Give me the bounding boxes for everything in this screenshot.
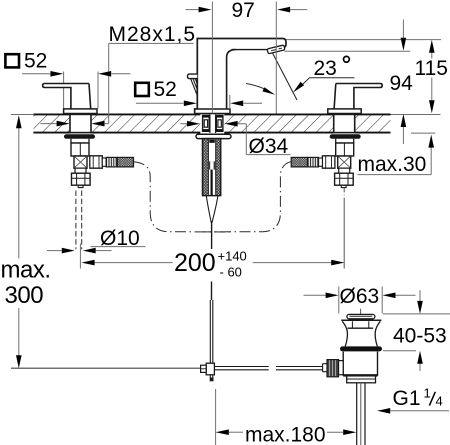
drain centreline tick (360, 309, 362, 314)
svg-text:23: 23 (314, 57, 337, 80)
right valve under-deck flange nut (330, 134, 361, 139)
right supply hose: hex nut (291, 156, 335, 168)
23-degree stream line (272, 53, 297, 100)
left handle base plinth (64, 109, 97, 114)
phantom hose curve from left valve (134, 162, 230, 232)
label square-52 top left (5, 54, 19, 67)
svg-text:52: 52 (24, 49, 47, 72)
dim 115 (inside arrows) (431, 52, 433, 101)
svg-text:max.30: max.30 (358, 153, 427, 176)
svg-text:97: 97 (232, 0, 255, 22)
svg-text:300: 300 (5, 282, 44, 309)
dim 40-53 (383, 314, 450, 351)
dim max.180 (215, 389, 217, 445)
center threaded shank below spout (196, 134, 231, 222)
svg-text:200: 200 (174, 249, 216, 277)
svg-text:M28x1,5: M28x1,5 (109, 23, 197, 46)
svg-text:max.: max. (1, 257, 51, 284)
drain rod shaft stub (323, 364, 327, 372)
drain threaded collar G1 1/4 (347, 376, 376, 383)
svg-text:Ø63: Ø63 (340, 285, 380, 308)
right hose connector (319, 158, 323, 166)
pull rod of pop-up waste (211, 221, 213, 300)
left valve supply tails (dashed, Ø10) (76, 191, 82, 250)
dim diameter 63 (339, 287, 382, 314)
deck reference extension lines (11, 115, 441, 134)
left valve body (71, 143, 89, 156)
pipes exiting shank bottom (converging) (206, 196, 218, 223)
phantom hose curve from right valve (203, 162, 291, 232)
right handle T2 (mirror) (328, 84, 382, 114)
pop-up waste knob on spout (188, 74, 198, 95)
sq52 extension lines (under handle) (64, 72, 98, 109)
drain side port white block (339, 361, 344, 375)
dim 97: arrows (186, 9, 200, 11)
spout base plinth (195, 109, 230, 114)
dim 94 (outside arrows) (402, 20, 404, 39)
svg-text:Ø34: Ø34 (249, 135, 289, 158)
svg-text:40-53: 40-53 (393, 325, 447, 348)
left braided hose (117, 157, 133, 167)
svg-text:52: 52 (154, 78, 177, 101)
right valve bottom nut (335, 173, 354, 185)
label square-52 centre (135, 83, 149, 96)
horizontal actuating rod (11, 367, 201, 369)
left valve bottom nut (72, 173, 91, 185)
pop-up waste drain assembly (323, 309, 382, 445)
left valve shank through deck (64, 114, 95, 187)
left supply hose: hex nut (90, 156, 134, 168)
right hose compression fitting (ribbed) (307, 157, 318, 167)
wire: spout top reference line A (286, 39, 441, 41)
left hose connector (102, 158, 106, 166)
left hose compression fitting (ribbed) (106, 157, 117, 167)
svg-text:115: 115 (415, 57, 448, 80)
rod-to-pull-rod clamp (206, 363, 214, 375)
svg-text:4: 4 (436, 394, 443, 409)
right handle base plinth (328, 109, 361, 114)
center shank mounting hardware in deck (203, 114, 223, 133)
drain body (343, 352, 377, 376)
left valve under-deck flange nut (64, 134, 95, 139)
dim 97: extension lines (212, 2, 276, 114)
svg-text:+140: +140 (218, 249, 247, 264)
drain plug cap (347, 314, 375, 318)
right valve centreline down to 200-dim (343, 188, 345, 269)
wire: aerator reference line B (284, 50, 410, 52)
spout U1 body (195, 39, 286, 114)
right braided hose (291, 157, 307, 167)
drain tailpipe (357, 383, 365, 445)
svg-text:1: 1 (424, 386, 431, 401)
svg-text:- 60: - 60 (220, 265, 242, 280)
drain knurled coupling knob (327, 360, 339, 377)
right valve body (336, 143, 354, 156)
dim 200 +140/-60 (79, 244, 81, 269)
drain upper neck (concave) (341, 319, 381, 321)
drain rubber seal ring (340, 346, 382, 351)
svg-text:94: 94 (390, 72, 414, 95)
left handle T1 (43, 84, 97, 114)
aerator on spout (267, 45, 285, 54)
svg-text:max.180: max.180 (245, 424, 326, 445)
svg-text:G1: G1 (393, 387, 421, 410)
right valve shank through deck (330, 114, 361, 187)
label diameter 34 with leader (181, 123, 188, 125)
countertop deck with hatching (4 segments between mounting holes) (33, 114, 390, 132)
